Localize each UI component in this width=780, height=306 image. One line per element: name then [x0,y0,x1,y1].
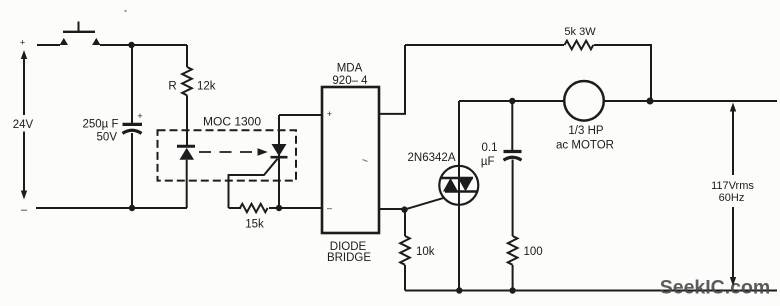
svg-text:24V: 24V [13,119,34,131]
svg-text:+: + [137,111,142,121]
svg-text:250µ F: 250µ F [82,119,118,131]
svg-text:5k 3W: 5k 3W [564,26,596,38]
svg-text:15k: 15k [245,219,264,231]
svg-text:BRIDGE: BRIDGE [327,252,371,264]
svg-text:0.1: 0.1 [482,142,498,154]
svg-text:µF: µF [481,156,495,168]
svg-text:1/3 HP: 1/3 HP [568,125,603,137]
svg-text:+: + [20,38,25,48]
svg-text:–: – [327,203,332,213]
svg-text:SeekIC.com: SeekIC.com [660,277,771,299]
svg-text:2N6342A: 2N6342A [408,152,456,164]
svg-text:50V: 50V [97,132,118,144]
svg-text:R: R [168,81,176,93]
svg-text:920– 4: 920– 4 [332,75,368,87]
svg-text:+: + [327,109,332,119]
svg-text:ac MOTOR: ac MOTOR [556,139,614,151]
svg-text:100: 100 [524,246,543,258]
svg-text:MDA: MDA [337,63,363,75]
svg-text:–: – [21,204,28,216]
svg-text:MOC 1300: MOC 1300 [203,115,261,129]
svg-text:10k: 10k [416,246,435,258]
svg-text:117Vrms: 117Vrms [711,180,754,192]
svg-text:12k: 12k [197,81,216,93]
svg-text:60Hz: 60Hz [719,192,745,204]
